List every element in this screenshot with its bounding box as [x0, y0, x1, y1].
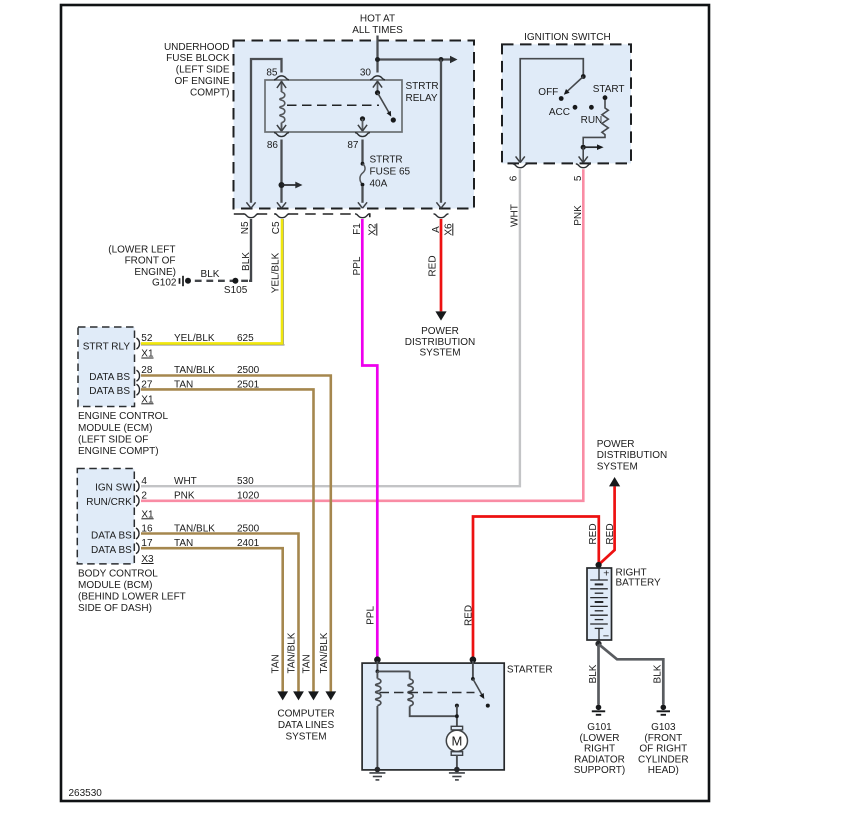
svg-text:X1: X1 — [141, 349, 154, 360]
wire BLK battery to G101 — [588, 645, 599, 705]
svg-text:RED: RED — [605, 523, 616, 544]
svg-text:STARTER: STARTER — [507, 664, 553, 675]
connector cup N5 — [240, 214, 259, 234]
svg-text:6: 6 — [509, 175, 520, 181]
svg-text:RADIATOR: RADIATOR — [574, 754, 625, 765]
starter motor M — [446, 726, 467, 769]
svg-text:POWER: POWER — [597, 439, 635, 450]
relay switch contacts — [358, 81, 396, 132]
wire feed from HOT AT into fuse block — [376, 36, 378, 73]
contact ACC — [549, 105, 578, 118]
svg-text:85: 85 — [266, 67, 278, 78]
wire RED from A/X6 to power distribution — [427, 219, 446, 321]
svg-text:UNDERHOOD: UNDERHOOD — [164, 42, 230, 53]
ECM pin 27 bracket — [137, 380, 260, 406]
svg-text:ALL TIMES: ALL TIMES — [352, 25, 403, 36]
svg-text:PPL: PPL — [366, 606, 377, 625]
wire pin 86 down to C5 — [277, 140, 303, 209]
svg-text:C5: C5 — [271, 221, 282, 234]
relay actuation dashed link — [287, 104, 379, 106]
svg-text:40A: 40A — [370, 179, 388, 190]
svg-text:COMPT): COMPT) — [190, 87, 229, 98]
starter switch — [471, 661, 490, 708]
label POWER DISTRIBUTION SYSTEM (left) — [405, 326, 476, 358]
BCM pin 4 bracket — [136, 476, 254, 492]
wire pin 87 to fuse — [361, 140, 363, 163]
underhood fuse block (dashed box) — [234, 41, 475, 209]
svg-text:(LOWER LEFT: (LOWER LEFT — [108, 244, 175, 255]
BCM pin 16 bracket — [136, 523, 260, 539]
svg-text:RUN: RUN — [581, 115, 603, 126]
svg-text:RED: RED — [463, 605, 474, 626]
connector cup A X6 — [431, 214, 455, 236]
svg-text:M: M — [451, 734, 462, 749]
svg-text:(LEFT SIDE OF: (LEFT SIDE OF — [78, 434, 148, 445]
ground G102 — [108, 244, 191, 288]
starter ground (left) — [369, 767, 385, 780]
svg-text:ENGINE CONTROL: ENGINE CONTROL — [78, 411, 168, 422]
starter box — [362, 663, 553, 770]
svg-text:G101: G101 — [587, 722, 612, 733]
svg-text:RED: RED — [588, 523, 599, 544]
svg-text:TAN: TAN — [302, 654, 313, 673]
wire from pin 85 loop to pin N5 — [246, 59, 281, 208]
label POWER DISTRIBUTION SYSTEM (right) — [597, 439, 668, 472]
ignition switch blade — [564, 74, 586, 95]
wire BLK battery to G103 — [599, 644, 664, 704]
BCM caption — [78, 568, 186, 614]
svg-text:(BEHIND LOWER LEFT: (BEHIND LOWER LEFT — [78, 592, 186, 603]
svg-text:DATA BS: DATA BS — [89, 386, 130, 397]
svg-text:DISTRIBUTION: DISTRIBUTION — [405, 337, 476, 348]
label UNDERHOOD FUSE BLOCK — [164, 42, 230, 99]
svg-text:SYSTEM: SYSTEM — [597, 461, 638, 472]
svg-text:RUN/CRK: RUN/CRK — [86, 497, 132, 508]
diagram number 263530 — [69, 788, 103, 799]
svg-text:DATA BS: DATA BS — [91, 530, 132, 541]
svg-text:DATA BS: DATA BS — [91, 545, 132, 556]
pin 85 cup — [266, 67, 289, 80]
svg-text:X6: X6 — [443, 223, 454, 236]
starter ground (right) — [449, 767, 465, 780]
pin 30 cup — [360, 67, 385, 80]
wire PPL from F1 to starter — [352, 219, 378, 657]
svg-text:SYSTEM: SYSTEM — [285, 732, 326, 743]
svg-text:FUSE BLOCK: FUSE BLOCK — [166, 53, 230, 64]
contact OFF — [538, 87, 563, 101]
svg-text:MODULE (ECM): MODULE (ECM) — [78, 423, 152, 434]
svg-text:BLK: BLK — [241, 252, 252, 271]
svg-text:TAN/BLK: TAN/BLK — [319, 632, 330, 673]
svg-text:OF ENGINE: OF ENGINE — [174, 76, 229, 87]
label COMPUTER DATA LINES SYSTEM — [277, 709, 334, 743]
svg-text:IGNITION SWITCH: IGNITION SWITCH — [524, 32, 611, 43]
svg-text:FRONT OF: FRONT OF — [125, 256, 176, 267]
svg-text:TAN/BLK: TAN/BLK — [287, 632, 298, 673]
svg-text:263530: 263530 — [69, 788, 103, 799]
svg-text:IGN SW: IGN SW — [95, 483, 132, 494]
wire bus to A/X6 — [378, 56, 458, 63]
connector cup C5 — [271, 214, 290, 234]
svg-text:PPL: PPL — [352, 256, 363, 275]
svg-text:(FRONT: (FRONT — [644, 733, 682, 744]
splice S105 — [224, 278, 248, 296]
wire TAN/BLK 2500 from ECM pin 28 — [141, 376, 336, 701]
svg-text:CYLINDER: CYLINDER — [638, 754, 689, 765]
node junction on bus — [375, 57, 444, 62]
svg-text:PNK: PNK — [573, 205, 584, 226]
wire TAN 2501 from ECM pin 27 — [141, 389, 319, 700]
ignition feed wire loop — [516, 59, 584, 163]
wire YEL/BLK 625 from C5 to ECM pin 52 — [141, 219, 285, 345]
svg-text:STRT RLY: STRT RLY — [83, 341, 131, 352]
ignition pin 6 cup — [509, 164, 528, 227]
pin 87 cup — [347, 133, 370, 151]
starter solenoid dashed link — [380, 692, 475, 694]
svg-text:OFF: OFF — [538, 87, 558, 98]
connector X2/X6 dashed strip below fuse block — [234, 214, 370, 217]
svg-text:BLK: BLK — [201, 269, 220, 280]
relay coil L1 — [277, 81, 286, 132]
svg-text:(LOWER: (LOWER — [580, 733, 620, 744]
svg-text:COMPUTER: COMPUTER — [277, 709, 334, 720]
svg-text:RED: RED — [427, 255, 438, 276]
svg-text:DATA LINES: DATA LINES — [278, 720, 335, 731]
dashed BLK wire to S105 and G102 — [190, 269, 248, 281]
BCM pin 17 bracket — [136, 538, 260, 565]
wire BLK from N5 — [241, 219, 252, 281]
BCM module box (dashed) — [77, 469, 134, 564]
svg-text:30: 30 — [360, 67, 372, 78]
contact RUN — [581, 105, 603, 126]
svg-text:+: + — [603, 567, 609, 579]
ground G103 — [638, 705, 689, 777]
svg-text:5: 5 — [573, 175, 584, 181]
svg-text:RELAY: RELAY — [406, 93, 438, 104]
svg-text:BATTERY: BATTERY — [616, 578, 662, 589]
contact START — [593, 84, 625, 100]
ignition pin 5 cup — [573, 164, 591, 226]
ECM pin 52 bracket — [137, 333, 255, 360]
relay box U1 STRTR RELAY — [265, 80, 439, 132]
svg-text:WHT: WHT — [509, 204, 520, 227]
svg-text:G102: G102 — [152, 278, 177, 289]
svg-text:MODULE (BCM): MODULE (BCM) — [78, 580, 152, 591]
svg-text:(LEFT SIDE: (LEFT SIDE — [176, 65, 230, 76]
svg-text:YEL/BLK: YEL/BLK — [270, 252, 281, 293]
BCM pin 2 bracket — [136, 490, 260, 520]
ECM pin 28 bracket — [137, 365, 260, 381]
node RED at starter — [470, 656, 477, 663]
svg-text:SIDE OF DASH): SIDE OF DASH) — [78, 603, 152, 614]
starter pull-in winding L2 — [376, 671, 381, 769]
svg-text:STRTR: STRTR — [370, 155, 403, 166]
wire TAN 2401 from BCM pin 17 — [141, 548, 288, 700]
battery BT1 RIGHT BATTERY — [587, 562, 661, 643]
battery negative node — [595, 641, 601, 647]
node PPL at starter — [374, 656, 381, 663]
fuse F65 STRTR FUSE 40A — [360, 155, 411, 190]
resistor in RUN/START feed — [583, 100, 608, 145]
label HOT AT ALL TIMES — [352, 14, 403, 37]
pin 86 cup — [267, 133, 289, 151]
wire from bus down to pin A — [436, 60, 445, 209]
svg-text:BLK: BLK — [652, 664, 663, 683]
ground G101 — [574, 705, 626, 777]
connector cup F1 X2 — [352, 214, 378, 236]
svg-text:HEAD): HEAD) — [648, 765, 679, 776]
wire fuse down to F1 — [358, 186, 367, 208]
svg-text:SYSTEM: SYSTEM — [419, 348, 460, 359]
svg-text:N5: N5 — [240, 221, 251, 234]
svg-text:S105: S105 — [224, 285, 248, 296]
svg-text:87: 87 — [347, 140, 359, 151]
svg-text:−: − — [603, 631, 609, 643]
wire RED battery to starter solenoid — [463, 517, 599, 657]
wire YEL/BLK label — [270, 252, 281, 293]
starter solenoid feed — [376, 661, 410, 673]
starter motor contact — [455, 704, 459, 727]
svg-text:TAN: TAN — [271, 654, 282, 673]
svg-text:RIGHT: RIGHT — [584, 744, 615, 755]
svg-text:SUPPORT): SUPPORT) — [574, 765, 626, 776]
ignition output junction — [579, 144, 604, 162]
svg-text:86: 86 — [267, 140, 279, 151]
wire TAN/BLK 2500 from BCM pin 16 — [141, 534, 304, 701]
starter hold-in winding L3 — [408, 671, 457, 716]
wire WHT from BCM pin 4 to ignition switch pin 6 — [141, 169, 520, 486]
svg-text:ACC: ACC — [549, 107, 570, 118]
svg-text:BLK: BLK — [588, 664, 599, 683]
svg-text:STRTR: STRTR — [406, 81, 439, 92]
svg-text:X2: X2 — [367, 223, 378, 236]
svg-text:ENGINE): ENGINE) — [134, 267, 176, 278]
svg-text:X3: X3 — [141, 554, 154, 565]
svg-text:START: START — [593, 84, 625, 95]
wire PNK from BCM pin 2 to ignition switch pin 5 — [141, 169, 583, 501]
svg-text:FUSE 65: FUSE 65 — [370, 167, 411, 178]
svg-text:DATA BS: DATA BS — [89, 372, 130, 383]
wire RED battery to power distribution — [599, 477, 621, 565]
svg-text:BODY CONTROL: BODY CONTROL — [78, 568, 158, 579]
ECM module box (dashed) — [78, 327, 135, 407]
svg-text:OF RIGHT: OF RIGHT — [639, 744, 687, 755]
svg-text:G103: G103 — [651, 722, 676, 733]
svg-text:HOT AT: HOT AT — [360, 14, 395, 25]
svg-text:POWER: POWER — [421, 326, 459, 337]
svg-text:X1: X1 — [141, 509, 154, 520]
border frame — [61, 5, 709, 801]
svg-text:DISTRIBUTION: DISTRIBUTION — [597, 450, 668, 461]
ignition switch box (dashed) — [502, 32, 631, 163]
battery plates — [590, 569, 608, 640]
svg-text:ENGINE COMPT): ENGINE COMPT) — [78, 446, 159, 457]
svg-text:X1: X1 — [141, 394, 154, 405]
ECM caption — [78, 411, 168, 457]
